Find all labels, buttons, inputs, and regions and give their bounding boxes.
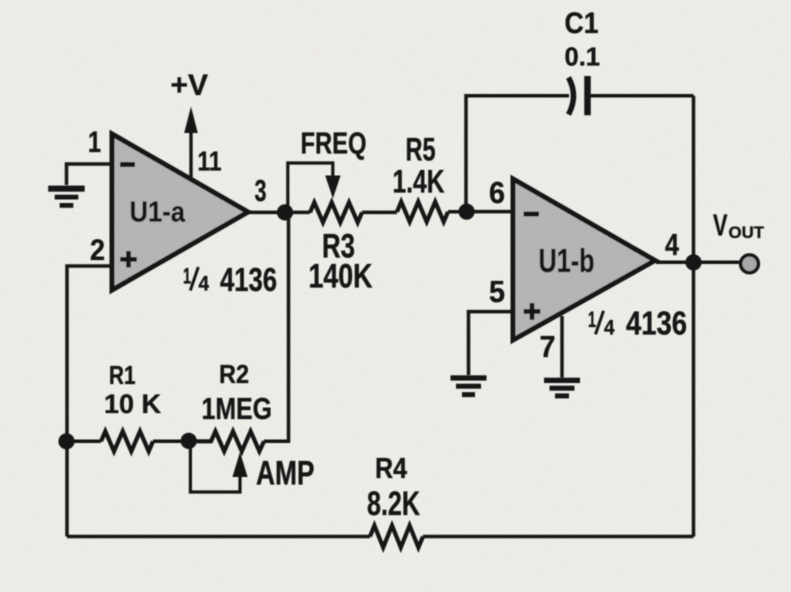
label Vout: [713, 208, 764, 243]
potentiometer R2 zigzag: [189, 431, 264, 451]
FREQ wiper arrow: [288, 163, 341, 206]
svg-text:1: 1: [588, 307, 596, 332]
svg-text:U1-b: U1-b: [539, 242, 595, 279]
svg-text:OUT: OUT: [729, 224, 765, 242]
wire right vertical rail: [692, 96, 696, 537]
ground (pin 7): [544, 378, 580, 399]
svg-text:1MEG: 1MEG: [202, 391, 273, 426]
svg-text:0.1: 0.1: [565, 42, 601, 72]
svg-text:+V: +V: [171, 69, 209, 102]
svg-text:1: 1: [183, 263, 191, 288]
label 1/4 4136 (left): [183, 261, 277, 298]
svg-text:U1-a: U1-a: [130, 197, 186, 229]
ground (pin 1): [48, 186, 84, 208]
svg-text:4: 4: [665, 227, 680, 262]
wire U1-a output to node 3: [248, 211, 285, 215]
svg-text:4136: 4136: [220, 261, 277, 298]
resistor R4 zigzag: [370, 526, 423, 548]
U1-b plus sign: [524, 303, 541, 320]
wire node 6 to U1-b pin 6: [467, 210, 513, 214]
svg-text:4136: 4136: [626, 305, 687, 342]
svg-text:3: 3: [255, 173, 267, 208]
AMP wiper arrow: [190, 441, 247, 492]
wire node A to R1: [67, 440, 102, 444]
svg-text:8.2K: 8.2K: [367, 485, 420, 523]
resistor R5 zigzag: [397, 202, 448, 222]
resistor R1 zigzag: [101, 431, 153, 451]
wire bottom rail right segment: [423, 535, 694, 539]
svg-text:AMP: AMP: [256, 455, 315, 493]
node 3 junction dot: [277, 204, 293, 220]
capacitor C1: [569, 76, 588, 115]
node A junction dot: [58, 433, 74, 449]
wire R5 to node 6: [448, 210, 467, 214]
resistor R3 zigzag: [310, 202, 362, 222]
op-amp U1-a: [112, 134, 248, 290]
U1-a minus sign: [120, 162, 135, 167]
wire node 3 to R3: [285, 211, 310, 215]
label 1/4 4136 (right): [588, 305, 687, 342]
svg-text:140K: 140K: [309, 258, 373, 296]
ground (pin 5): [451, 375, 487, 397]
svg-text:V: V: [713, 208, 728, 243]
wire pin1 of U1-a to ground: [67, 164, 113, 185]
wire U1-b output to Vout terminal: [656, 261, 740, 265]
wire C1 right to corner: [590, 94, 694, 98]
svg-text:R2: R2: [219, 359, 249, 389]
svg-text:4: 4: [199, 273, 210, 296]
svg-text:1.4K: 1.4K: [393, 164, 445, 200]
svg-text:7: 7: [540, 329, 556, 364]
U1-b minus sign: [524, 212, 540, 217]
wire U1-b pin5 to ground: [469, 312, 514, 375]
svg-text:1: 1: [88, 126, 101, 159]
svg-text:C1: C1: [565, 7, 599, 40]
node 4 junction dot: [685, 254, 701, 270]
+V arrow: [184, 107, 198, 179]
svg-text:FREQ: FREQ: [301, 126, 367, 161]
Vout terminal: [741, 255, 759, 273]
svg-text:R4: R4: [375, 453, 407, 485]
wire node 6 up to C1 left: [466, 96, 569, 212]
node B junction dot: [181, 433, 197, 449]
node 6 junction dot: [459, 204, 475, 220]
wire bottom rail left segment: [67, 535, 370, 539]
svg-text:2: 2: [90, 234, 105, 267]
svg-text:11: 11: [198, 146, 222, 177]
wire R3 to R5: [362, 211, 397, 215]
op-amp U1-b: [513, 179, 655, 340]
svg-text:4: 4: [604, 317, 615, 340]
U1-a plus sign: [120, 251, 137, 268]
svg-text:R1: R1: [109, 360, 136, 390]
svg-text:5: 5: [489, 274, 505, 309]
svg-text:6: 6: [489, 175, 505, 210]
wire pin2 of U1-a down left side: [67, 266, 112, 537]
wire U1-b pin7 to ground: [560, 316, 564, 378]
wire node 3 down to R2: [264, 213, 289, 442]
svg-text:10 K: 10 K: [104, 389, 161, 419]
wire R1 to node B: [153, 440, 189, 444]
svg-text:R5: R5: [406, 132, 436, 168]
